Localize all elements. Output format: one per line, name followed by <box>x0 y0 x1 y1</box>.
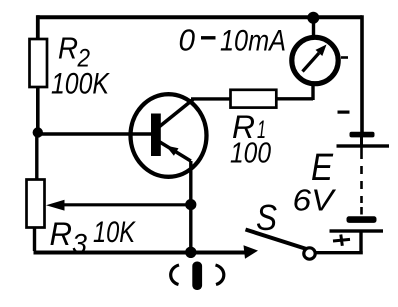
wire emitter down to bottom rail <box>189 161 192 252</box>
meter needle arrowhead <box>316 45 327 57</box>
svg-text:R: R <box>50 216 73 252</box>
wire left rail top <box>36 15 40 40</box>
node wiper junction dot <box>185 199 196 210</box>
switch S lever <box>246 230 307 250</box>
wire R1 to meter <box>277 85 314 100</box>
transistor Q1 collector lead <box>160 100 194 127</box>
transistor Q1 base bar <box>151 114 161 157</box>
battery dashed link <box>360 147 363 215</box>
wire junction to R3 <box>35 133 38 180</box>
wire collector to R1 <box>191 97 231 100</box>
node emitter bottom junction dot <box>185 247 196 258</box>
transistor Q1 emitter lead <box>159 142 191 162</box>
meter needle <box>303 53 320 72</box>
potentiometer R3 body <box>27 180 45 228</box>
node base junction dot <box>33 127 43 137</box>
meter right stub <box>341 56 348 59</box>
battery cell 1 negative plate <box>350 132 375 138</box>
label plus <box>333 235 350 246</box>
transistor Q1 circle <box>131 94 207 177</box>
svg-text:6V: 6V <box>293 183 338 218</box>
meter M1 circle <box>292 37 338 83</box>
wire base <box>38 132 152 135</box>
potentiometer R3 wiper arrowhead <box>46 200 65 211</box>
label minus <box>338 111 350 114</box>
wire wiper to R3 <box>62 203 191 206</box>
transistor Q1 emitter arrow (PNP) <box>166 146 179 156</box>
svg-text:10mA: 10mA <box>220 25 286 58</box>
figure label (1) bar <box>192 262 202 291</box>
wire battery to bottom right corner <box>315 231 363 253</box>
resistor R1 body <box>231 90 277 108</box>
figure label (1) right paren <box>216 265 224 285</box>
battery cell 1 positive plate <box>337 144 390 147</box>
svg-text:100: 100 <box>230 138 271 170</box>
battery cell 2 positive plate <box>330 229 384 232</box>
resistor R2 body <box>30 39 48 87</box>
switch S right contact circle <box>304 248 315 259</box>
battery cell 2 negative plate <box>347 216 377 223</box>
node top junction dot <box>307 12 319 24</box>
svg-text:S: S <box>256 197 277 238</box>
wire R3 bottom to bottom rail <box>33 228 36 252</box>
wire bottom rail <box>34 251 247 255</box>
battery inter-plate stub <box>360 137 363 145</box>
svg-text:R: R <box>58 31 78 66</box>
wire R2 bottom to base junction <box>36 87 40 133</box>
wire top rail <box>37 15 362 19</box>
svg-text:0: 0 <box>179 23 196 58</box>
figure label (1) left paren <box>171 265 179 285</box>
svg-text:10K: 10K <box>93 216 137 249</box>
wire right rail <box>360 15 364 133</box>
wire meter top <box>312 17 315 36</box>
svg-text:100K: 100K <box>51 68 111 101</box>
switch S left contact arrow <box>244 245 259 258</box>
